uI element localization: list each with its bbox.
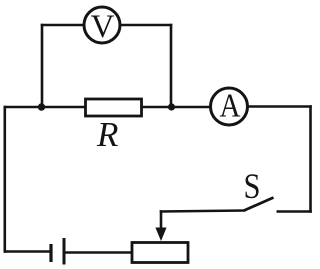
voltmeter V: [84, 7, 120, 45]
ammeter A: [211, 88, 248, 126]
wire: top-left vertical from node A up to voltmeter branch: [41, 24, 44, 108]
wire: left vertical from main rail down to bottom rail: [4, 106, 7, 253]
wire: main rail left segment, left edge to resistor R: [4, 106, 87, 109]
battery cell: long (positive) plate: [63, 238, 66, 265]
wire: top-right vertical down to node B: [170, 24, 173, 108]
wire: bottom-right horizontal to switch fixed contact: [277, 210, 312, 213]
svg-text:R: R: [96, 115, 118, 154]
battery cell: short (negative) plate: [49, 244, 52, 262]
resistor R: [86, 99, 142, 116]
node B junction dot: [168, 103, 175, 110]
wire: top rail, voltmeter right terminal to top-right corner: [120, 24, 172, 27]
svg-text:S: S: [244, 166, 261, 206]
slider arrowhead onto rheostat: [155, 228, 166, 242]
rheostat (sliding resistor) body: [132, 243, 188, 263]
node A junction dot: [38, 103, 45, 110]
svg-text:A: A: [220, 88, 241, 125]
wire: bottom rail from left corner to battery negative plate: [4, 250, 50, 253]
wire: slider arm vertical into rheostat: [160, 210, 163, 230]
svg-text:V: V: [91, 9, 115, 45]
switch S (open blade): [244, 198, 274, 211]
wire: top rail, node A corner to voltmeter left terminal: [41, 24, 84, 27]
wire: main rail, resistor R to ammeter: [142, 106, 212, 109]
wire: switch pivot to corner above rheostat slider: [160, 211, 246, 212]
wire: main rail right segment, ammeter to top-right corner of right branch: [247, 105, 312, 108]
wire: battery positive plate to rheostat left terminal: [64, 251, 132, 254]
wire: right vertical down to switch branch: [309, 105, 312, 213]
